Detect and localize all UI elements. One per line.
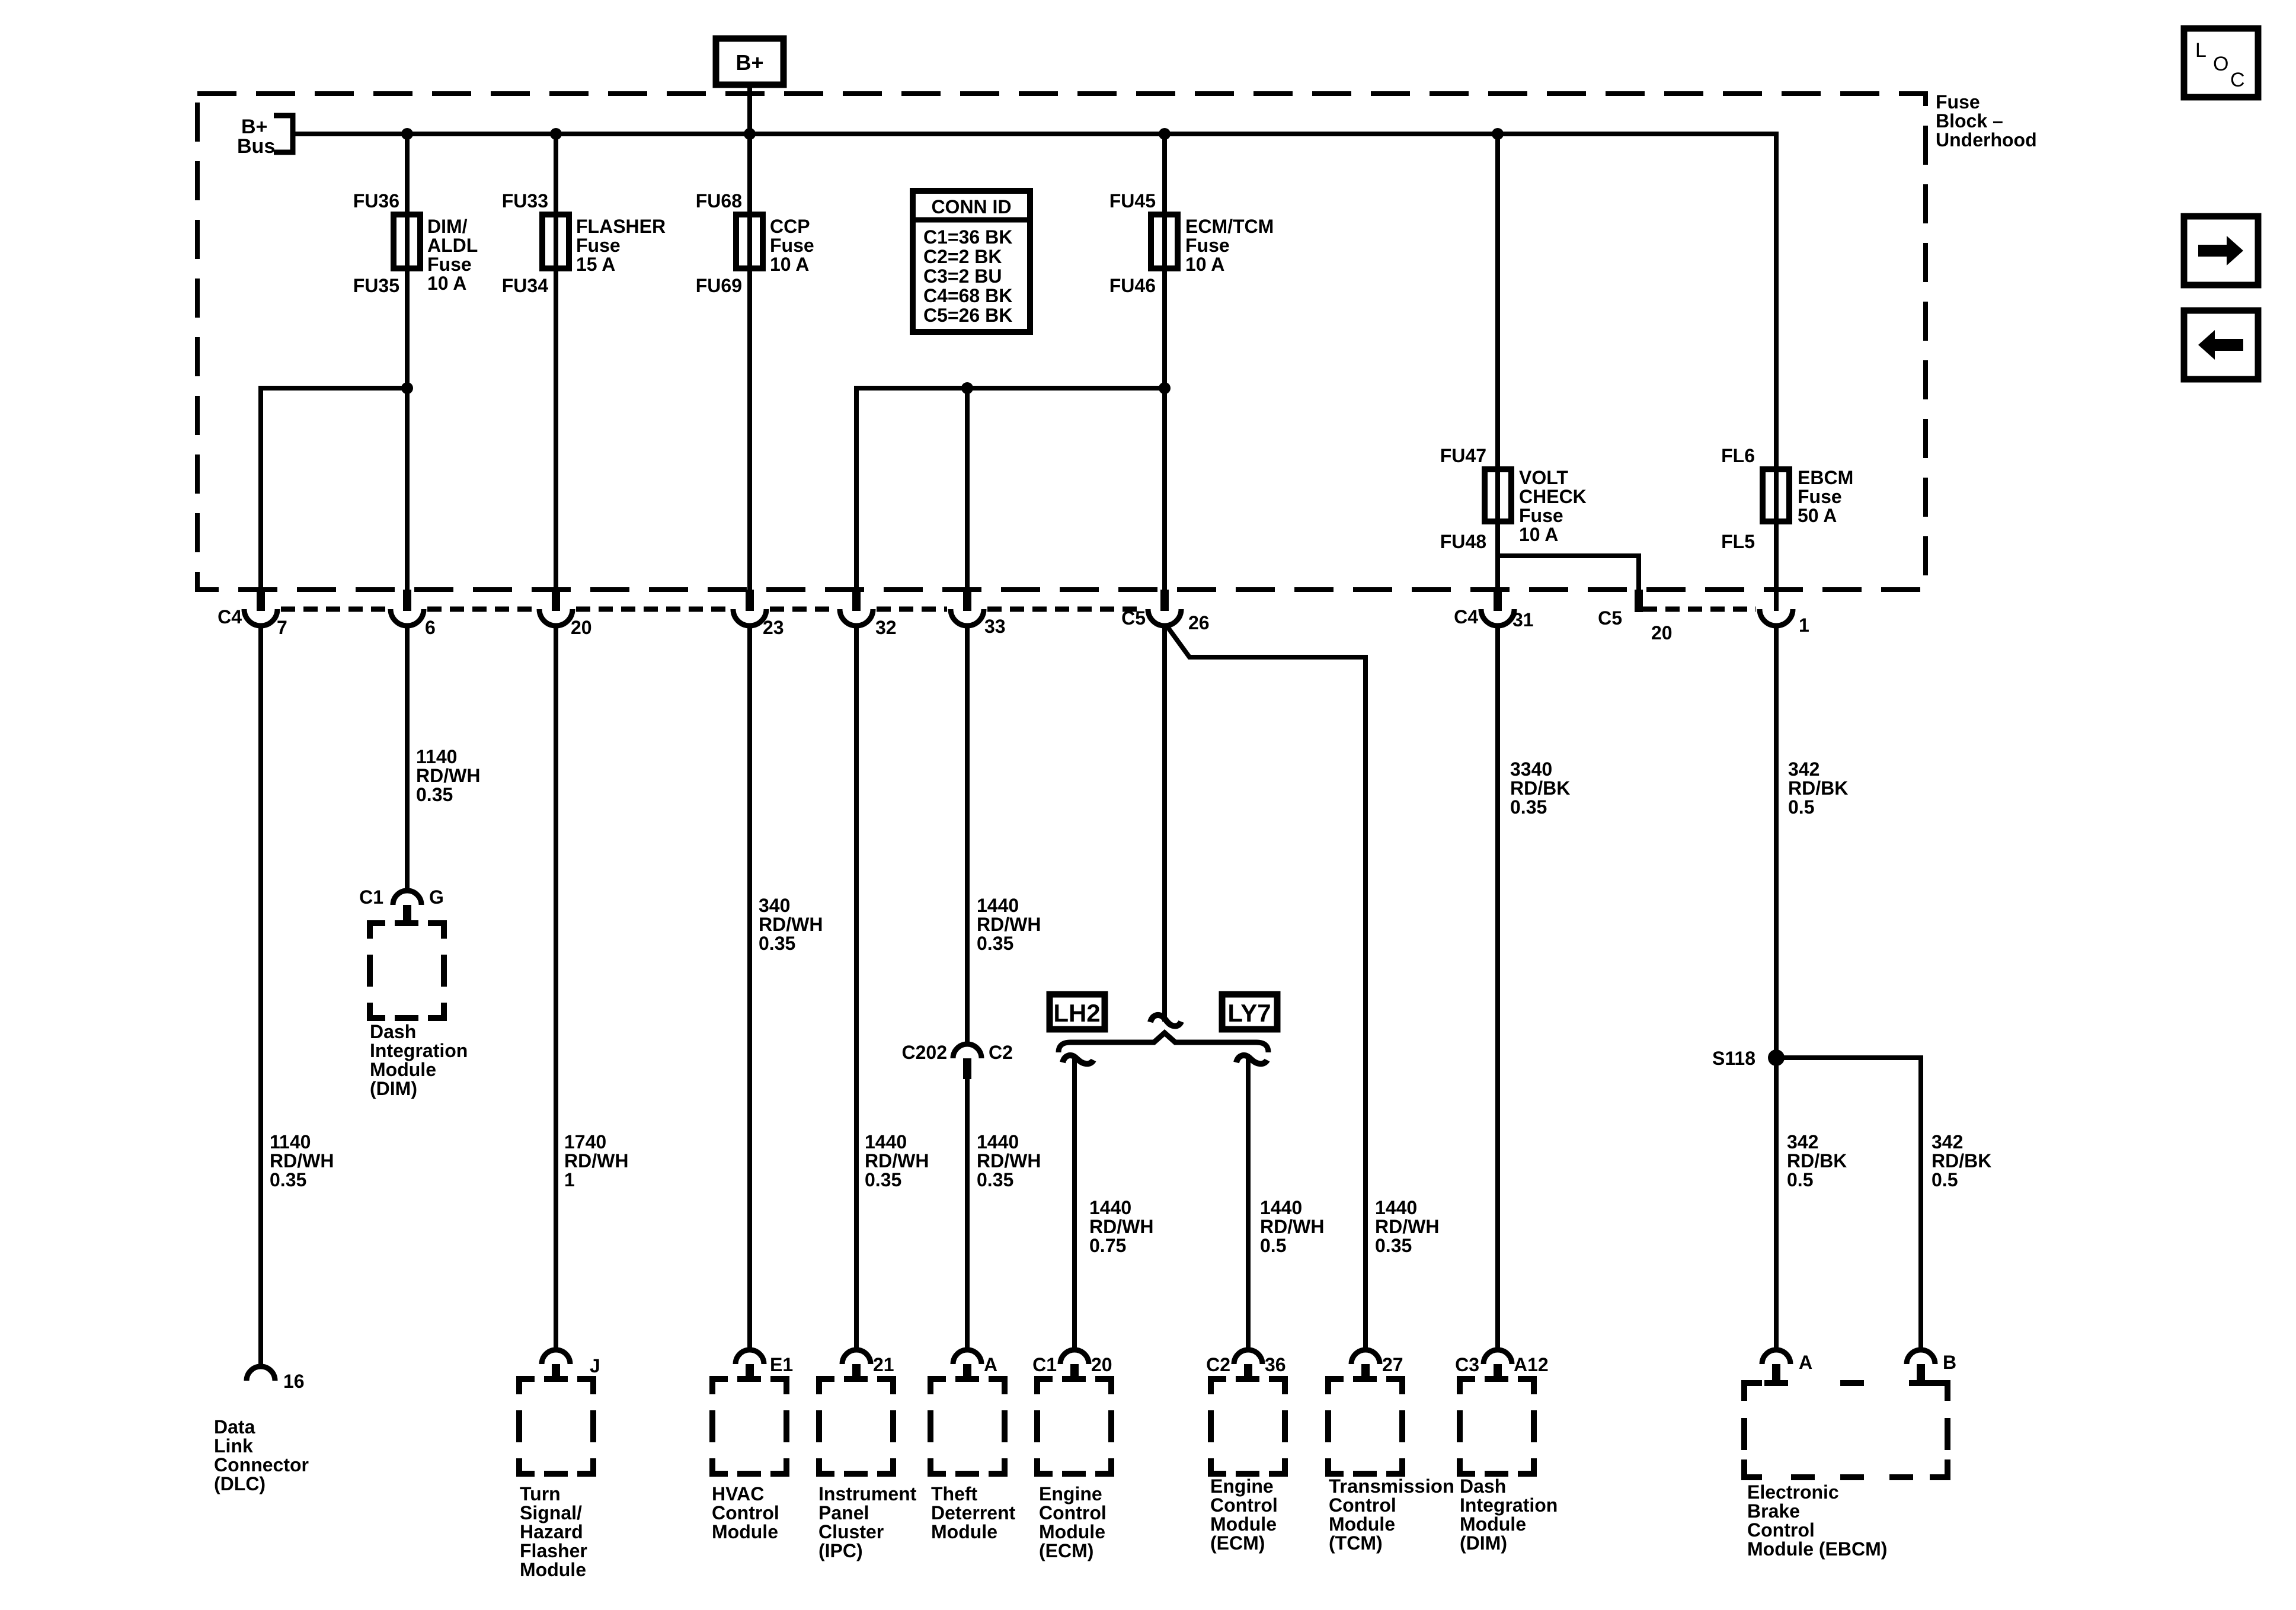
svg-text:Module: Module	[1210, 1513, 1277, 1535]
svg-text:(TCM): (TCM)	[1329, 1532, 1383, 1554]
connector pin C1-20 at ECM (LH2)	[1032, 1350, 1112, 1382]
fuse FU47/FU48 VOLT CHECK	[1440, 445, 1587, 552]
connector pin C4-31	[1454, 590, 1534, 630]
wire bus to FU45 and down	[1162, 134, 1167, 611]
svg-text:Engine: Engine	[1210, 1475, 1274, 1497]
svg-text:RD/WH: RD/WH	[270, 1150, 334, 1172]
svg-text:FL5: FL5	[1721, 531, 1755, 552]
connector pin E1 at HVAC module	[736, 1350, 793, 1382]
wire circuit 342 EBCM B branch	[1776, 1058, 1921, 1350]
svg-text:C5: C5	[1121, 607, 1146, 629]
svg-text:B+: B+	[736, 50, 763, 75]
svg-text:342: 342	[1932, 1131, 1963, 1153]
svg-text:Dash: Dash	[370, 1021, 416, 1042]
connector pin C5-26	[1121, 590, 1210, 633]
svg-text:RD/WH: RD/WH	[1375, 1216, 1439, 1237]
label Electronic Brake Control Module (EBCM)	[1747, 1481, 1887, 1560]
label 1440 RD/WH 0.35 (Theft upper)	[977, 895, 1041, 954]
wire circuit 1440 Theft lower drop	[965, 1079, 970, 1350]
svg-text:EBCM: EBCM	[1798, 467, 1853, 488]
svg-text:Flasher: Flasher	[520, 1540, 587, 1561]
svg-text:1440: 1440	[1375, 1197, 1417, 1218]
B+ bus bracket	[274, 116, 293, 152]
wire Theft drop inside block	[965, 388, 970, 611]
module box Instrument Panel Cluster	[819, 1376, 893, 1474]
B+ bus wire	[293, 134, 1776, 611]
wire circuit 1440 IPC drop	[854, 624, 859, 1350]
label HVAC Control Module	[712, 1483, 779, 1542]
label Fuse Block - Underhood	[1936, 91, 2037, 151]
svg-text:RD/BK: RD/BK	[1510, 777, 1570, 799]
connector pin C5-20 stub	[1598, 590, 1673, 644]
svg-text:1140: 1140	[270, 1131, 311, 1153]
svg-text:C1: C1	[1032, 1354, 1057, 1375]
svg-text:Data: Data	[214, 1416, 255, 1438]
CONN ID table	[913, 191, 1030, 332]
svg-text:10 A: 10 A	[1185, 254, 1224, 275]
svg-text:HVAC: HVAC	[712, 1483, 764, 1505]
svg-text:Theft: Theft	[931, 1483, 978, 1505]
svg-text:1: 1	[564, 1169, 575, 1190]
svg-text:RD/WH: RD/WH	[759, 914, 823, 935]
svg-text:0.75: 0.75	[1089, 1235, 1126, 1256]
splice S118	[1712, 1048, 1785, 1069]
svg-text:0.35: 0.35	[759, 933, 795, 954]
svg-text:RD/WH: RD/WH	[977, 914, 1041, 935]
wire circuit 1440 branch to TCM	[1166, 625, 1366, 1350]
svg-text:0.35: 0.35	[977, 933, 1013, 954]
svg-text:Fuse: Fuse	[1519, 505, 1563, 526]
svg-text:CONN ID: CONN ID	[931, 196, 1011, 217]
svg-text:ECM/TCM: ECM/TCM	[1185, 216, 1274, 237]
svg-text:L: L	[2195, 39, 2207, 62]
svg-text:Control: Control	[1747, 1519, 1815, 1541]
arrow box previous page left	[2184, 311, 2258, 379]
svg-text:Fuse: Fuse	[1798, 486, 1842, 507]
fuse FU36/FU35 DIM/ALDL	[353, 190, 478, 296]
wire circuit 1740 Turn Signal drop	[554, 624, 558, 1350]
svg-text:Fuse: Fuse	[576, 235, 621, 256]
svg-text:36: 36	[1265, 1354, 1286, 1375]
wire circuit 1440 from C5-26 down	[1162, 624, 1167, 1022]
svg-text:FU36: FU36	[353, 190, 399, 212]
connector pin 21 at IPC	[842, 1350, 894, 1382]
connector pin 27 at TCM	[1351, 1350, 1403, 1382]
label 342 RD/BK 0.5 (upper)	[1788, 758, 1848, 818]
engine option box LY7	[1222, 994, 1277, 1029]
svg-text:Bus: Bus	[237, 135, 275, 158]
module box Transmission Control Module	[1328, 1376, 1402, 1474]
label 1440 RD/WH 0.35 (TCM)	[1375, 1197, 1439, 1256]
svg-text:FU47: FU47	[1440, 445, 1486, 466]
svg-text:Connector: Connector	[214, 1454, 309, 1475]
junction node on bus at FU36	[401, 128, 413, 140]
svg-text:RD/WH: RD/WH	[564, 1150, 628, 1172]
svg-text:Module: Module	[1039, 1521, 1105, 1542]
module box HVAC Control Module	[712, 1376, 786, 1474]
svg-text:342: 342	[1788, 758, 1819, 780]
svg-text:FU48: FU48	[1440, 531, 1486, 552]
wire break above LY7 wire	[1236, 1055, 1267, 1064]
svg-text:Fuse: Fuse	[427, 254, 472, 275]
svg-text:LH2: LH2	[1053, 999, 1100, 1027]
module label Data Link Connector (DLC)	[214, 1416, 309, 1494]
svg-text:S118: S118	[1712, 1048, 1755, 1069]
svg-text:FLASHER: FLASHER	[576, 216, 666, 237]
svg-text:FU33: FU33	[502, 190, 548, 212]
svg-text:Fuse: Fuse	[770, 235, 814, 256]
svg-text:Link: Link	[214, 1435, 253, 1457]
svg-text:Module: Module	[1460, 1513, 1526, 1535]
connector pin C2-36 at ECM (LY7)	[1206, 1350, 1286, 1382]
svg-text:Module: Module	[931, 1521, 997, 1542]
svg-text:C4: C4	[1454, 606, 1478, 628]
wire IPC/Theft branch horizontal	[856, 388, 1165, 611]
svg-text:Fuse: Fuse	[1185, 235, 1230, 256]
connector pin A at EBCM	[1762, 1350, 1812, 1385]
svg-text:0.35: 0.35	[977, 1169, 1013, 1190]
svg-text:6: 6	[425, 617, 436, 638]
wire B+ terminal to bus	[747, 85, 752, 134]
B+ power terminal box	[716, 39, 784, 85]
svg-text:50 A: 50 A	[1798, 505, 1837, 526]
svg-text:Panel: Panel	[818, 1502, 869, 1523]
label 340 RD/WH 0.35	[759, 895, 823, 954]
svg-text:CHECK: CHECK	[1519, 486, 1587, 507]
svg-text:G: G	[429, 886, 444, 908]
svg-text:ALDL: ALDL	[427, 235, 478, 256]
svg-text:Turn: Turn	[520, 1483, 561, 1505]
junction node FU35 branch	[401, 382, 413, 394]
svg-text:(DLC): (DLC)	[214, 1473, 266, 1494]
svg-text:1440: 1440	[865, 1131, 907, 1153]
svg-text:B: B	[1943, 1352, 1956, 1373]
svg-text:0.35: 0.35	[1375, 1235, 1412, 1256]
svg-text:E1: E1	[770, 1354, 793, 1375]
svg-text:Block –: Block –	[1936, 110, 2003, 132]
svg-text:RD/WH: RD/WH	[1089, 1216, 1153, 1237]
svg-text:31: 31	[1512, 609, 1534, 630]
svg-text:27: 27	[1382, 1354, 1403, 1375]
svg-text:J: J	[590, 1355, 600, 1377]
svg-text:0.5: 0.5	[1787, 1169, 1813, 1190]
svg-text:FU45: FU45	[1109, 190, 1156, 212]
connector pin 6	[391, 590, 436, 638]
fuse FU45/FU46 ECM/TCM	[1109, 190, 1274, 296]
wire circuit 1140 DLC drop	[258, 624, 263, 1366]
svg-text:Signal/: Signal/	[520, 1502, 582, 1523]
svg-text:O: O	[2213, 53, 2228, 75]
svg-text:Electronic: Electronic	[1747, 1481, 1839, 1503]
svg-text:DIM/: DIM/	[427, 216, 468, 237]
svg-text:C202: C202	[902, 1042, 948, 1063]
svg-text:7: 7	[277, 617, 287, 638]
wire circuit 1440 Theft upper drop	[965, 624, 970, 1044]
junction node Theft branch	[961, 382, 973, 394]
label Instrument Panel Cluster (IPC)	[818, 1483, 917, 1561]
svg-text:0.35: 0.35	[865, 1169, 901, 1190]
svg-text:Integration: Integration	[370, 1040, 468, 1061]
svg-text:RD/WH: RD/WH	[416, 765, 480, 786]
svg-text:16: 16	[283, 1371, 305, 1392]
svg-text:0.35: 0.35	[1510, 796, 1547, 818]
junction node FU46 branch	[1159, 382, 1171, 394]
wire DLC branch horizontal	[261, 388, 407, 611]
wire bus through FU68 down	[747, 134, 752, 611]
svg-text:Module: Module	[370, 1059, 436, 1080]
connector pin C3-A12 at DIM	[1455, 1350, 1549, 1382]
svg-text:C4: C4	[218, 606, 242, 628]
svg-text:20: 20	[1091, 1354, 1112, 1375]
svg-text:C2: C2	[989, 1042, 1013, 1063]
label 1440 RD/WH 0.35 (Theft lower)	[977, 1131, 1041, 1190]
wire circuit 1440 LH2 ECM drop	[1072, 1059, 1077, 1350]
label Engine Control Module (ECM) LY7	[1210, 1475, 1278, 1554]
fuse FL6/FL5 EBCM	[1721, 445, 1853, 552]
label Dash Integration Module (DIM) lower	[1460, 1475, 1558, 1554]
svg-text:C: C	[2230, 69, 2245, 91]
svg-text:10 A: 10 A	[427, 273, 466, 294]
svg-text:Cluster: Cluster	[818, 1521, 884, 1542]
svg-text:C5=26 BK: C5=26 BK	[923, 305, 1012, 326]
svg-text:0.5: 0.5	[1260, 1235, 1286, 1256]
module box Engine Control Module LH2	[1037, 1376, 1111, 1474]
connector pin J at Turn Signal module	[542, 1350, 600, 1382]
label Engine Control Module (ECM) LH2	[1039, 1483, 1107, 1561]
svg-text:Module: Module	[712, 1521, 778, 1542]
label 3340 RD/BK 0.35	[1510, 758, 1570, 818]
svg-text:A12: A12	[1514, 1354, 1549, 1375]
module box Electronic Brake Control Module	[1744, 1380, 1948, 1477]
svg-text:33: 33	[984, 616, 1006, 637]
label 342 RD/BK 0.5 (A lower)	[1787, 1131, 1847, 1190]
label Transmission Control Module (TCM)	[1329, 1475, 1454, 1554]
svg-text:RD/BK: RD/BK	[1788, 777, 1848, 799]
fuse FU33/FU34 FLASHER	[502, 190, 666, 296]
svg-text:RD/BK: RD/BK	[1787, 1150, 1847, 1172]
arrow box next page right	[2184, 216, 2258, 285]
label Dash Integration Module (DIM)	[370, 1021, 468, 1099]
svg-text:VOLT: VOLT	[1519, 467, 1568, 488]
connector pin 32	[840, 590, 897, 638]
svg-text:Transmission: Transmission	[1329, 1475, 1454, 1497]
wire circuit 1440 LY7 ECM drop	[1246, 1059, 1251, 1350]
svg-text:32: 32	[875, 617, 897, 638]
svg-text:0.35: 0.35	[270, 1169, 306, 1190]
svg-text:1440: 1440	[1089, 1197, 1131, 1218]
wire bus to FU47 and down	[1495, 134, 1500, 611]
wire circuit 3340 DIM drop	[1495, 624, 1500, 1350]
connector pin 23	[733, 590, 784, 638]
label 1140 RD/WH 0.35 (DIM)	[416, 746, 480, 805]
svg-text:15 A: 15 A	[576, 254, 615, 275]
wire bus to FU33 and down	[554, 134, 558, 611]
svg-text:C1: C1	[359, 886, 383, 908]
junction node on bus at FU45	[1159, 128, 1171, 140]
svg-text:RD/WH: RD/WH	[865, 1150, 929, 1172]
svg-text:1140: 1140	[416, 746, 457, 767]
module box Theft Deterrent Module	[930, 1376, 1005, 1474]
connector C1-G at DIM	[359, 886, 444, 925]
svg-text:Module: Module	[1329, 1513, 1395, 1535]
svg-text:FU69: FU69	[696, 275, 742, 296]
label Turn Signal/Hazard Flasher Module	[520, 1483, 587, 1580]
svg-text:LY7: LY7	[1227, 999, 1271, 1027]
wire bus to FU36 and down	[405, 134, 410, 611]
wire circuit 342 EBCM A drop	[1774, 624, 1779, 1350]
wire FU48 branch to C5-20	[1498, 521, 1639, 611]
svg-text:(IPC): (IPC)	[818, 1540, 863, 1561]
wire circuit 1140 DIM drop	[405, 624, 410, 891]
svg-text:C2=2 BK: C2=2 BK	[923, 246, 1002, 267]
B+ Bus label	[237, 116, 275, 158]
svg-text:RD/BK: RD/BK	[1932, 1150, 1991, 1172]
svg-text:1: 1	[1799, 614, 1809, 636]
svg-text:0.35: 0.35	[416, 784, 453, 805]
svg-text:1740: 1740	[564, 1131, 606, 1153]
svg-text:23: 23	[763, 617, 784, 638]
svg-text:Integration: Integration	[1460, 1494, 1558, 1516]
svg-text:0.5: 0.5	[1932, 1169, 1958, 1190]
svg-text:26: 26	[1188, 612, 1210, 633]
wire circuit 340 HVAC drop	[747, 624, 752, 1350]
svg-text:20: 20	[1651, 622, 1673, 644]
svg-text:A: A	[984, 1354, 997, 1375]
module box Dash Integration Module lower	[1460, 1376, 1534, 1474]
module box Engine Control Module LY7	[1211, 1376, 1285, 1474]
svg-text:C3=2 BU: C3=2 BU	[923, 265, 1002, 287]
module box Dash Integration Module (DIM) upper	[370, 920, 444, 1018]
svg-text:Engine: Engine	[1039, 1483, 1102, 1505]
connector C4 dotted interface line segments	[281, 607, 387, 612]
svg-text:342: 342	[1787, 1131, 1818, 1153]
svg-text:Control: Control	[712, 1502, 779, 1523]
svg-text:FL6: FL6	[1721, 445, 1755, 466]
svg-text:(ECM): (ECM)	[1039, 1540, 1093, 1561]
svg-text:(DIM): (DIM)	[370, 1078, 417, 1099]
LOC reference box	[2184, 28, 2258, 97]
engine option brace	[1059, 1033, 1268, 1052]
label 342 RD/BK 0.5 (B lower)	[1932, 1131, 1991, 1190]
svg-text:3340: 3340	[1510, 758, 1552, 780]
svg-text:C4=68 BK: C4=68 BK	[923, 285, 1012, 306]
label 1440 RD/WH 0.35 (IPC)	[865, 1131, 929, 1190]
svg-text:10 A: 10 A	[1519, 524, 1558, 545]
svg-text:1440: 1440	[977, 1131, 1019, 1153]
connector C202-C2	[902, 1042, 1013, 1079]
label Theft Deterrent Module	[931, 1483, 1016, 1542]
label 1440 RD/WH 0.5	[1260, 1197, 1324, 1256]
svg-text:A: A	[1799, 1352, 1812, 1373]
svg-text:FU68: FU68	[696, 190, 742, 212]
svg-text:FU34: FU34	[502, 275, 548, 296]
label 1740 RD/WH 1	[564, 1131, 628, 1190]
svg-text:Control: Control	[1329, 1494, 1396, 1516]
connector pin 20	[539, 590, 592, 638]
svg-text:C2: C2	[1206, 1354, 1230, 1375]
svg-text:FU46: FU46	[1109, 275, 1156, 296]
svg-text:Dash: Dash	[1460, 1475, 1506, 1497]
connector pin 33	[951, 590, 1006, 637]
connector pin 1	[1760, 609, 1809, 636]
svg-text:C1=36 BK: C1=36 BK	[923, 226, 1012, 248]
module box Turn Signal/Hazard Flasher	[519, 1376, 593, 1474]
svg-text:FU35: FU35	[353, 275, 399, 296]
fuse block - underhood dashed border	[197, 94, 1926, 590]
wire break at engine split	[1150, 1015, 1181, 1026]
connector pin B at EBCM	[1907, 1350, 1956, 1385]
svg-text:RD/WH: RD/WH	[977, 1150, 1041, 1172]
svg-text:Module (EBCM): Module (EBCM)	[1747, 1538, 1887, 1560]
label 1140 RD/WH 0.35 (DLC)	[270, 1131, 334, 1190]
svg-text:1440: 1440	[1260, 1197, 1302, 1218]
connector pin 16 at DLC	[247, 1366, 305, 1392]
engine option box LH2	[1050, 994, 1105, 1029]
svg-text:Deterrent: Deterrent	[931, 1502, 1016, 1523]
svg-text:C3: C3	[1455, 1354, 1479, 1375]
svg-text:Hazard: Hazard	[520, 1521, 583, 1542]
wire break above LH2 wire	[1063, 1055, 1093, 1064]
svg-text:0.5: 0.5	[1788, 796, 1814, 818]
label 1440 RD/WH 0.75	[1089, 1197, 1153, 1256]
svg-text:10 A: 10 A	[770, 254, 809, 275]
svg-text:20: 20	[571, 617, 592, 638]
svg-text:CCP: CCP	[770, 216, 810, 237]
junction node on bus at FU33	[550, 128, 562, 140]
svg-text:1440: 1440	[977, 895, 1019, 916]
svg-text:340: 340	[759, 895, 790, 916]
svg-text:Module: Module	[520, 1559, 586, 1580]
svg-text:Brake: Brake	[1747, 1500, 1800, 1522]
svg-text:Control: Control	[1210, 1494, 1278, 1516]
fuse FU68/FU69 CCP	[696, 190, 814, 296]
svg-text:Underhood: Underhood	[1936, 129, 2037, 151]
svg-text:(DIM): (DIM)	[1460, 1532, 1507, 1554]
connector pin C4-7	[218, 590, 287, 638]
svg-text:21: 21	[873, 1354, 894, 1375]
svg-text:Control: Control	[1039, 1502, 1107, 1523]
svg-text:(ECM): (ECM)	[1210, 1532, 1265, 1554]
svg-text:RD/WH: RD/WH	[1260, 1216, 1324, 1237]
svg-text:C5: C5	[1598, 607, 1622, 629]
junction node on bus at B+ feed	[744, 128, 756, 140]
svg-text:Instrument: Instrument	[818, 1483, 917, 1505]
svg-text:Fuse: Fuse	[1936, 91, 1980, 113]
connector pin A at Theft Deterrent module	[953, 1350, 997, 1382]
junction node on bus at FU47	[1492, 128, 1504, 140]
